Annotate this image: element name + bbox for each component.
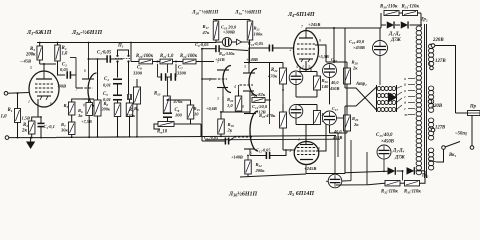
transformer Tr2 right winding 3 xyxy=(428,118,433,123)
wire L5 screen xyxy=(316,118,326,151)
diode D1 xyxy=(387,21,394,28)
resistor R1 xyxy=(15,109,21,123)
resistor R8 volume xyxy=(94,100,101,116)
svg-text:×300В: ×300В xyxy=(223,30,235,35)
tube L3b cathode top xyxy=(244,113,256,115)
wire R2 to bus xyxy=(31,134,33,138)
wire switch right down xyxy=(128,62,130,95)
capacitor C16 electrolytic xyxy=(323,64,337,78)
transformer Tr1 winding row2 xyxy=(377,93,381,97)
wire L3b cathode up xyxy=(249,112,251,114)
svg-text:Д3-Д4: Д3-Д4 xyxy=(392,149,405,154)
wire R26 down xyxy=(316,90,318,97)
polarity arrow C10 xyxy=(237,39,242,44)
resistor R23 xyxy=(252,98,265,103)
wire R20 xyxy=(238,90,240,96)
svg-text:6: 6 xyxy=(50,102,52,106)
tube L3a cathode xyxy=(243,90,254,92)
svg-text:~50гц: ~50гц xyxy=(455,132,467,137)
tube L4 cathode xyxy=(299,58,313,60)
svg-text:в: в xyxy=(404,88,406,93)
cathode bypass cap C14b xyxy=(289,104,303,118)
svg-text:Л2б″½6Н1П: Л2б″½6Н1П xyxy=(191,11,219,16)
node diode midpoint xyxy=(402,170,404,172)
wire 140 node xyxy=(244,62,283,64)
resistor R28 xyxy=(344,68,351,84)
svg-text:R13: R13 xyxy=(154,92,161,97)
tube L2a anode xyxy=(82,78,94,80)
wire d1 d2 xyxy=(395,24,400,26)
wire R1 to bus xyxy=(17,123,19,138)
resistor R7 xyxy=(68,122,75,135)
wire anode node xyxy=(40,63,56,65)
transformer Tr2 left winding xyxy=(416,26,422,31)
wire left frame horiz xyxy=(336,184,368,186)
wire C9 wiring xyxy=(202,48,216,50)
tube L5 cathode xyxy=(300,144,313,146)
resistor R24 xyxy=(280,68,287,84)
capacitor C11 xyxy=(224,138,226,145)
svg-text:Л4-6П14П: Л4-6П14П xyxy=(287,12,315,18)
tube L2b cathode xyxy=(217,87,228,89)
ground symbol xyxy=(30,138,32,142)
tube L2b envelope xyxy=(223,66,231,93)
svg-text:R2: R2 xyxy=(23,123,28,128)
svg-text:6: 6 xyxy=(84,69,86,73)
wire fuse wiring xyxy=(456,112,468,114)
resistor R33 xyxy=(405,180,420,186)
svg-text:1: 1 xyxy=(298,138,300,142)
wire R24 top xyxy=(282,63,284,69)
svg-text:3300: 3300 xyxy=(176,71,187,76)
tube L2a cathode xyxy=(83,98,94,100)
svg-text:Пр: Пр xyxy=(469,105,477,110)
svg-text:Атр1: Атр1 xyxy=(355,82,367,87)
svg-text:9: 9 xyxy=(319,39,321,43)
capacitor C16b electrolytic xyxy=(328,174,342,188)
wire anode to C3 xyxy=(89,58,108,60)
svg-text:8: 8 xyxy=(83,104,85,108)
capacitor C5 xyxy=(113,94,122,96)
svg-text:1,0: 1,0 xyxy=(1,115,8,120)
wire C2 to grid L2a xyxy=(70,74,76,76)
svg-text:4: 4 xyxy=(296,65,298,69)
svg-text:С4: С4 xyxy=(104,77,109,82)
wire C11 right xyxy=(229,138,234,142)
input terminal upper xyxy=(4,92,8,96)
wire R8 bus xyxy=(117,117,119,137)
wire C6 C7 join xyxy=(158,76,162,78)
capacitor C15 electrolytic xyxy=(377,145,391,159)
wire R6 bus xyxy=(88,116,90,138)
svg-text:2к: 2к xyxy=(21,129,27,134)
wire L4 screen xyxy=(315,45,326,62)
svg-text:47к: 47к xyxy=(202,30,211,35)
wire c5a join xyxy=(129,94,131,96)
diode D4 xyxy=(407,167,415,175)
wire R5 top xyxy=(72,99,83,102)
cathode bypass cap C14a xyxy=(289,71,303,85)
svg-text:Д1-Д2: Д1-Д2 xyxy=(388,32,401,37)
svg-text:R24: R24 xyxy=(271,68,278,73)
wire anode lead lower xyxy=(344,106,346,174)
transformer Tr1 winding row1 xyxy=(377,86,381,90)
tube L2a grid xyxy=(81,87,93,89)
svg-text:R4: R4 xyxy=(62,46,67,51)
wire grid L2b from C9 xyxy=(202,49,214,79)
wire C15 xyxy=(383,159,385,171)
tube L2a envelope xyxy=(88,73,97,107)
wire cathode to R2 C1 xyxy=(32,106,38,121)
resistor R17 xyxy=(213,21,219,40)
wire L2b cathode down xyxy=(221,96,223,119)
tube L4 pin stubs xyxy=(299,67,301,75)
tube L1 envelope xyxy=(29,71,59,107)
transformer Tr2 core xyxy=(424,24,426,178)
svg-text:R33·110к: R33·110к xyxy=(404,190,421,195)
resistor R20 xyxy=(235,96,242,111)
resistor R4 xyxy=(55,45,61,61)
svg-text:Л3б½6Н1П: Л3б½6Н1П xyxy=(228,191,257,198)
wire to switch xyxy=(470,146,474,150)
resistor R30 xyxy=(384,11,399,16)
resistor R26 xyxy=(314,76,321,90)
wire L5 cathode up xyxy=(305,125,307,145)
svg-text:+245В: +245В xyxy=(308,22,320,27)
svg-text:127В: 127В xyxy=(435,126,445,131)
wire R25 xyxy=(282,104,284,112)
wire R3 bottom xyxy=(39,60,41,64)
wire C3 to switch node xyxy=(110,58,123,60)
svg-text:1,5В: 1,5В xyxy=(22,116,30,121)
tube L1 grids xyxy=(35,83,53,85)
wire L3a anode to C13 xyxy=(249,48,269,62)
svg-text:С15·40,0: С15·40,0 xyxy=(376,133,393,138)
wire C10 inline xyxy=(216,41,222,43)
supply line upper xyxy=(213,19,250,21)
resistor R19 cathode xyxy=(218,119,225,134)
svg-text:3: 3 xyxy=(217,97,219,101)
svg-text:1: 1 xyxy=(28,100,30,104)
resistor R2 xyxy=(28,121,35,134)
svg-text:1: 1 xyxy=(217,60,219,64)
tube L1 anode xyxy=(36,78,52,80)
resistor R22 xyxy=(245,160,252,174)
resistor R21 xyxy=(247,21,253,40)
tap 127V upper xyxy=(429,62,432,66)
wire C13 to L4 grid xyxy=(273,47,294,49)
wire tr1 taps to letters xyxy=(397,86,403,89)
wire R19 bus xyxy=(220,134,222,136)
svg-text:127В: 127В xyxy=(435,59,446,64)
resistor R29 xyxy=(344,115,351,131)
svg-text:100: 100 xyxy=(175,113,183,118)
capacitor C5a xyxy=(127,94,129,100)
tube L3b grid xyxy=(234,136,252,138)
svg-text:R30·110к: R30·110к xyxy=(380,5,398,10)
resistor R31 xyxy=(403,11,418,16)
wire diode row top xyxy=(381,24,386,26)
tube L3a anode xyxy=(243,72,255,74)
svg-text:+5,5В: +5,5В xyxy=(318,54,329,59)
svg-text:200к: 200к xyxy=(255,168,266,173)
wire C12 to L5 grid xyxy=(270,150,295,156)
resistor R5 xyxy=(68,102,75,115)
junction dots bus xyxy=(97,136,99,138)
wire L1 cathode down xyxy=(37,99,39,106)
wire anode lead upper xyxy=(344,28,346,88)
wire main B+ vertical xyxy=(333,28,335,62)
svg-text:5: 5 xyxy=(30,66,32,70)
capacitor C1 xyxy=(38,122,45,124)
wire d2 to tr xyxy=(410,24,422,26)
wire L3b to C12 xyxy=(250,155,266,157)
wire C11 left xyxy=(202,140,225,142)
svg-text:30к: 30к xyxy=(60,128,69,133)
capacitor C12 xyxy=(265,152,267,159)
svg-text:Rм10: Rм10 xyxy=(157,130,168,135)
wire L3a cathode xyxy=(249,91,251,112)
svg-text:д: д xyxy=(404,100,406,105)
wire R27 up xyxy=(316,105,318,111)
svg-text:200к: 200к xyxy=(25,53,36,58)
resistor R8 xyxy=(114,103,121,117)
svg-text:220В: 220В xyxy=(431,104,443,109)
svg-text:2к: 2к xyxy=(353,122,359,127)
tap 220V lower xyxy=(429,99,430,102)
svg-text:Вк1: Вк1 xyxy=(448,153,457,158)
ground bus left xyxy=(9,137,56,139)
svg-text:450В: 450В xyxy=(329,86,339,91)
capacitor C7 xyxy=(170,73,172,81)
svg-text:100к: 100к xyxy=(254,32,264,37)
wire screen node lower xyxy=(323,117,327,119)
svg-text:Тр2: Тр2 xyxy=(422,174,429,179)
tube L2b grid xyxy=(214,78,227,80)
resistor R13 xyxy=(163,96,170,113)
svg-text:4: 4 xyxy=(234,85,236,89)
svg-text:Л3а″½6Н1П: Л3а″½6Н1П xyxy=(234,11,262,16)
tube L3a grid xyxy=(240,84,254,86)
svg-text:R12·100к: R12·100к xyxy=(180,54,198,59)
wire switch left down xyxy=(117,62,119,78)
wire R32 R33 link xyxy=(400,182,405,184)
tube L3b anode xyxy=(244,148,255,150)
capacitor C17 electrolytic xyxy=(323,111,337,125)
wire bottom rect xyxy=(345,171,388,173)
svg-text:9: 9 xyxy=(318,147,320,151)
wire R28 stubs xyxy=(346,62,348,68)
wire L4 anode to supply xyxy=(305,28,307,31)
resistor R27 xyxy=(314,111,321,125)
wire R21 bottom to anode xyxy=(249,40,251,63)
svg-text:0,01: 0,01 xyxy=(103,83,111,88)
diode D3 xyxy=(388,167,396,175)
svg-text:R3: R3 xyxy=(30,47,35,52)
tube L2b anode xyxy=(217,69,229,71)
svg-text:→45В: →45В xyxy=(19,59,31,64)
svg-text:2к: 2к xyxy=(352,66,358,71)
wire R29 top xyxy=(346,111,348,116)
wire R3 top to rail xyxy=(39,43,41,47)
svg-text:Тр2: Тр2 xyxy=(421,18,428,23)
tube L3a envelope xyxy=(249,69,257,96)
wire C17 bottom xyxy=(329,125,331,133)
svg-text:П1: П1 xyxy=(117,44,124,49)
svg-text:R10·100к: R10·100к xyxy=(136,54,154,59)
switch Vk xyxy=(442,146,446,150)
svg-text:R11·1,0: R11·1,0 xyxy=(160,54,174,59)
wire letters to Tr2 xyxy=(408,78,415,80)
ground bus main xyxy=(56,136,205,139)
svg-text:220В: 220В xyxy=(432,38,444,43)
capacitor C6 xyxy=(160,73,162,81)
svg-text:е: е xyxy=(404,106,406,111)
transformer Tr1 core triangle xyxy=(388,93,397,103)
svg-text:+140В: +140В xyxy=(246,57,258,62)
resistor R8a xyxy=(126,103,133,117)
wire C16b stub xyxy=(342,180,351,182)
wire R4 bottom to C2 node xyxy=(58,61,66,75)
svg-text:-30В: -30В xyxy=(57,84,66,89)
capacitor C8 xyxy=(163,112,172,114)
svg-text:ж: ж xyxy=(404,112,408,117)
wire R24 R25 mid xyxy=(269,97,271,124)
resistor R14 Rn xyxy=(158,122,174,127)
wire C4 to C5 xyxy=(117,84,119,96)
resistor R12 xyxy=(183,59,196,64)
tube L5 grids xyxy=(297,147,316,149)
wire input to grid xyxy=(8,92,29,95)
wire C3 node down xyxy=(97,59,99,100)
resistor R9b 330k xyxy=(134,87,141,104)
svg-text:Д7Ж: Д7Ж xyxy=(394,156,406,161)
wire left frame verticals xyxy=(350,140,352,181)
wire R23 xyxy=(265,99,271,101)
wire R7 bus xyxy=(71,135,73,138)
svg-text:140: 140 xyxy=(322,84,330,89)
wire mains vertical xyxy=(435,46,456,114)
transformer Tr2 right winding 1 xyxy=(428,44,433,49)
resistor R6 xyxy=(86,103,93,116)
svg-text:40,0: 40,0 xyxy=(330,80,339,85)
capacitor C19 electrolytic xyxy=(373,41,388,56)
svg-text:Л2а-½6Н1П: Л2а-½6Н1П xyxy=(71,29,102,36)
wire C1 to bus xyxy=(40,127,42,138)
supply rail top xyxy=(37,42,216,44)
svg-text:3: 3 xyxy=(308,65,310,69)
input terminal lower xyxy=(5,136,9,140)
wire R15 bottom xyxy=(190,119,192,124)
wire R17 top xyxy=(215,20,217,22)
wire L4 cathode down xyxy=(305,61,307,72)
wire R24 bottom xyxy=(282,84,284,90)
wire switch to tr2 xyxy=(437,149,444,162)
svg-text:+140В: +140В xyxy=(231,155,243,160)
svg-text:0,05: 0,05 xyxy=(60,67,69,72)
tube L4 anode xyxy=(299,37,313,39)
svg-text:+7,5В: +7,5В xyxy=(81,119,92,124)
svg-text:1,0: 1,0 xyxy=(62,52,69,57)
resistor R25 xyxy=(280,112,287,128)
wire R22 xyxy=(247,156,249,161)
svg-text:R32·110к: R32·110к xyxy=(381,190,398,195)
wire C5 down to R8 xyxy=(117,100,119,103)
wire B+ to R30 xyxy=(360,27,381,29)
svg-text:8: 8 xyxy=(242,105,244,109)
svg-text:2: 2 xyxy=(290,48,292,52)
transformer Tr1 ends xyxy=(376,85,378,112)
svg-text:Л1-6Ж1П: Л1-6Ж1П xyxy=(26,30,52,36)
wire bus to diode row xyxy=(334,136,336,158)
svg-text:Л5 6П14П: Л5 6П14П xyxy=(287,191,314,197)
svg-text:R1: R1 xyxy=(8,108,13,113)
wire R4 top to rail xyxy=(57,43,59,46)
capacitor C3 xyxy=(106,55,108,63)
wire grid tap down to R1 xyxy=(17,93,19,108)
tube L1 cathode xyxy=(37,95,51,97)
wire Rn left xyxy=(154,124,160,129)
svg-text:1: 1 xyxy=(302,65,304,69)
svg-text:330к: 330к xyxy=(125,113,136,118)
svg-text:2: 2 xyxy=(290,149,292,153)
tube L5 anode xyxy=(300,159,313,161)
svg-text:3300: 3300 xyxy=(132,71,143,76)
wire L1 anode up to node xyxy=(43,64,45,71)
wire R8a wiring xyxy=(129,99,131,103)
svg-text:С3·0,05: С3·0,05 xyxy=(97,51,112,56)
wire R5 R7 xyxy=(71,115,73,122)
capacitor C4 xyxy=(113,78,122,80)
resistor R11 xyxy=(160,59,173,64)
svg-text:Д7Ж: Д7Ж xyxy=(390,38,402,43)
transformer Tr2 right winding 4 xyxy=(428,148,433,153)
svg-text:10: 10 xyxy=(194,112,199,117)
tube L4 grids xyxy=(297,43,315,45)
wire R17 bottom xyxy=(215,40,217,42)
tube L4 envelope xyxy=(294,31,319,70)
wire Rn to R15 node xyxy=(174,123,201,125)
transformer Tr1 winding row3 xyxy=(377,100,381,104)
resistor R15 xyxy=(187,105,194,119)
ground bus second line xyxy=(205,138,340,141)
wire C19 xyxy=(379,28,381,40)
tube L5 envelope xyxy=(294,142,319,165)
capacitor C13 xyxy=(268,45,270,52)
diode D2 xyxy=(401,21,408,28)
svg-text:R31·110к: R31·110к xyxy=(402,5,420,10)
svg-text:390к: 390к xyxy=(101,107,111,112)
svg-text:+0,6В: +0,6В xyxy=(206,106,217,111)
capacitor C9 xyxy=(215,45,217,52)
svg-text:×450В: ×450В xyxy=(353,45,365,50)
resistor R32 xyxy=(385,180,400,186)
svg-text:1,0: 1,0 xyxy=(227,103,233,108)
transformer Tr2 right winding 2 xyxy=(428,86,433,91)
wire R30 R31 xyxy=(399,12,403,14)
resistor R10 xyxy=(139,59,153,64)
wire C16 down xyxy=(329,78,331,105)
svg-text:3к: 3к xyxy=(77,113,83,118)
svg-text:6: 6 xyxy=(250,152,252,156)
svg-text:×450В: ×450В xyxy=(381,140,394,145)
resistor R3 xyxy=(37,46,43,60)
tube L3b envelope xyxy=(250,111,258,151)
svg-text:450В: 450В xyxy=(332,135,342,140)
wire R15 top xyxy=(168,100,191,105)
wire R21 top xyxy=(249,20,251,22)
wire R26 top xyxy=(316,72,318,77)
